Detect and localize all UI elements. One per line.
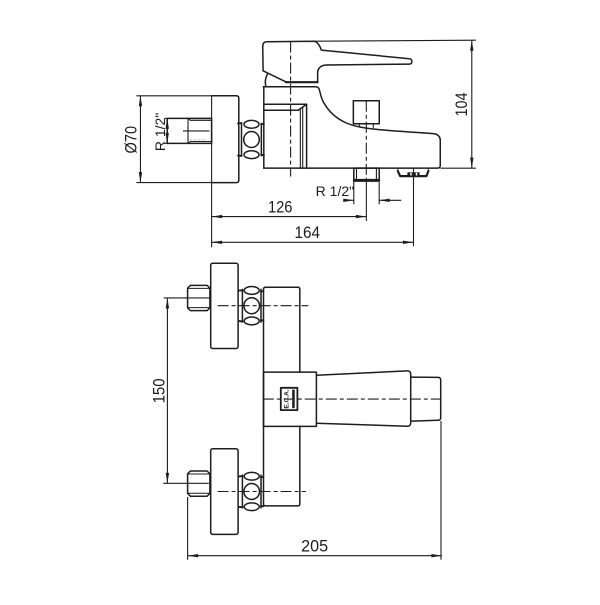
svg-text:R 1/2": R 1/2" xyxy=(152,113,168,151)
svg-text:150: 150 xyxy=(150,378,168,403)
svg-text:R 1/2": R 1/2" xyxy=(316,183,354,199)
svg-text:126: 126 xyxy=(268,199,293,217)
svg-text:164: 164 xyxy=(295,224,321,242)
svg-text:104: 104 xyxy=(453,93,471,117)
svg-text:205: 205 xyxy=(301,538,328,556)
svg-text:E.C.A.: E.C.A. xyxy=(284,389,291,408)
svg-text:Ø70: Ø70 xyxy=(122,126,140,154)
